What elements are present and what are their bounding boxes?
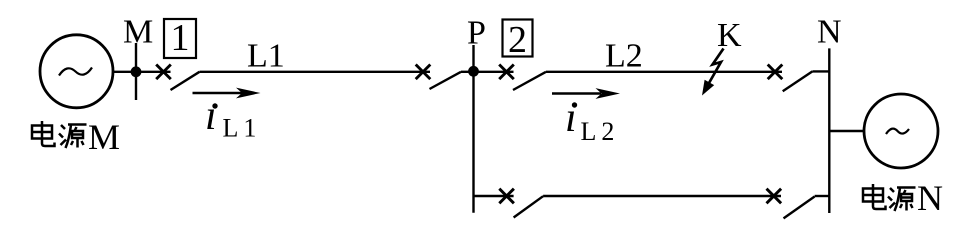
- label L2: [605, 38, 643, 75]
- svg-text:ı: ı: [565, 95, 577, 141]
- breaker 2 blade: [430, 72, 462, 89]
- label L1: [247, 38, 285, 75]
- svg-text:M: M: [123, 14, 153, 51]
- current arrow iL2: [552, 88, 620, 99]
- breaker 1 blade: [171, 72, 200, 90]
- label M: [123, 14, 153, 51]
- svg-text:ı: ı: [205, 93, 217, 139]
- breaker 4 (x mark) at end of L2: [768, 65, 783, 80]
- breaker 3 blade: [513, 72, 546, 90]
- wire blade 6 to bus N: [815, 195, 830, 197]
- label 电源M: [32, 117, 120, 157]
- bus P (node P vertical bar): [472, 45, 474, 213]
- breaker 5 (x mark) on parallel line: [499, 189, 514, 204]
- breaker 2 (x mark) at end of L1: [416, 65, 431, 80]
- fault K lightning arrow: [702, 49, 724, 96]
- breaker 1 (x mark): [156, 65, 171, 80]
- label iL1 (dotted i sub L1): [205, 93, 261, 143]
- label K (fault point): [717, 17, 742, 54]
- svg-text:P: P: [467, 14, 486, 51]
- svg-text:L2: L2: [605, 38, 643, 75]
- svg-text:N: N: [817, 13, 842, 50]
- wire bus P to bottom breaker 5: [474, 195, 514, 197]
- svg-text:2: 2: [508, 19, 527, 61]
- wire line L1: [200, 71, 431, 73]
- breaker 1 number box: [164, 17, 196, 59]
- breaker 3 (x mark): [499, 65, 514, 80]
- wire blade to bus N: [812, 70, 829, 72]
- wire from generator M to bus M: [112, 71, 171, 73]
- current arrow iL1: [193, 88, 261, 99]
- junction dot at bus P: [468, 66, 479, 77]
- svg-text:1: 1: [171, 17, 190, 59]
- breaker 4 blade: [783, 71, 813, 91]
- breaker 6 blade: [784, 197, 815, 219]
- junction dot at bus M: [131, 66, 142, 77]
- wire line L2: [546, 71, 782, 73]
- wire bus N to generator N: [829, 130, 864, 132]
- breaker 5 blade: [514, 196, 544, 217]
- generator 电源M (source M circle with ~): [40, 35, 113, 108]
- breaker 3 number box: [503, 19, 533, 61]
- svg-text:K: K: [717, 17, 742, 54]
- bus M (node M vertical bar): [135, 43, 137, 100]
- svg-text:L2: L2: [581, 117, 620, 146]
- label P: [467, 14, 486, 51]
- bus N (node N vertical bar): [828, 48, 830, 213]
- label 电源N: [863, 178, 943, 218]
- breaker 6 (x mark) on parallel line: [767, 189, 782, 204]
- svg-text:N: N: [917, 178, 943, 218]
- svg-text:M: M: [88, 117, 120, 157]
- wire blade to bus P: [461, 71, 474, 73]
- wire bus P to breaker 3: [474, 71, 514, 73]
- svg-text:L1: L1: [223, 114, 262, 143]
- wire parallel line P-N: [543, 195, 781, 197]
- label N: [817, 13, 842, 50]
- label iL2 (dotted i sub L2): [565, 95, 619, 146]
- generator 电源N (source N circle with ~): [864, 94, 938, 168]
- svg-text:L1: L1: [247, 38, 285, 75]
